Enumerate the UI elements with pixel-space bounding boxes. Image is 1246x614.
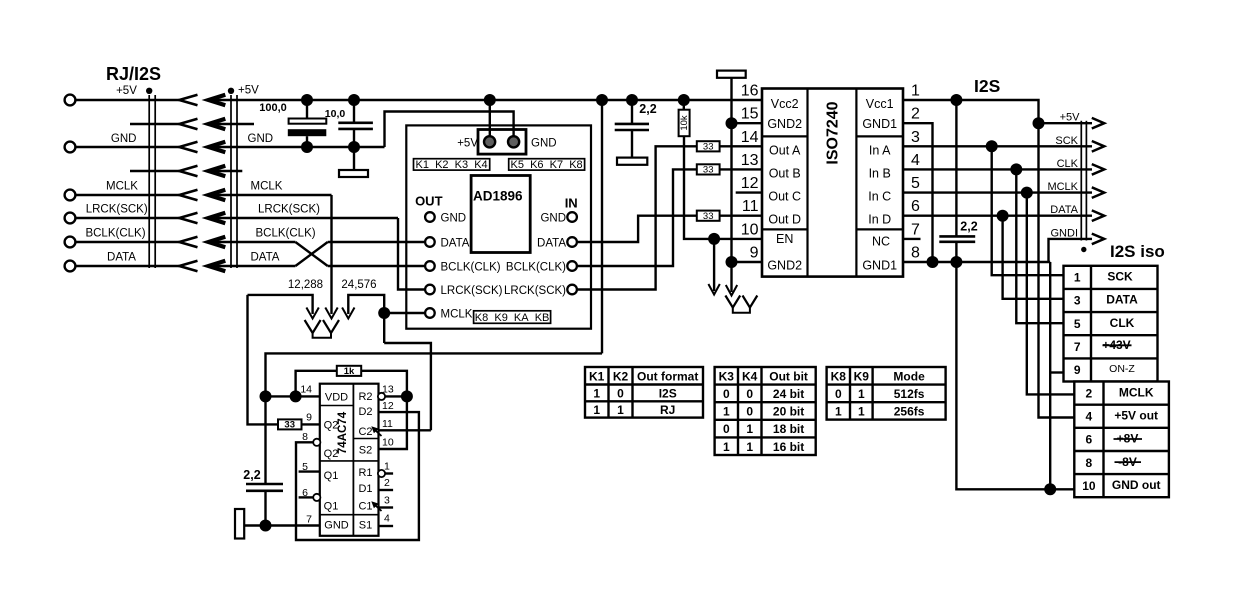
- svg-text:K9: K9: [854, 369, 870, 383]
- wire pin12 stub: [736, 191, 762, 193]
- wire +5V row right: [1039, 122, 1093, 124]
- svg-text:1: 1: [617, 403, 624, 417]
- svg-text:Q2: Q2: [324, 419, 339, 431]
- svg-text:DATA: DATA: [1050, 204, 1078, 216]
- connector table I2S iso odd pins: [1064, 266, 1158, 382]
- wire +5V out to table: [1039, 123, 1075, 417]
- svg-text:+5V out: +5V out: [1114, 409, 1158, 423]
- svg-text:18 bit: 18 bit: [773, 422, 804, 436]
- wire 1k loop right: [361, 371, 407, 397]
- svg-text:Out bit: Out bit: [769, 369, 808, 383]
- svg-text:BCLK(CLK): BCLK(CLK): [256, 228, 316, 240]
- wire Vcc1 pin1 to +5V row: [903, 100, 1039, 123]
- svg-text:In D: In D: [868, 213, 891, 227]
- svg-text:MCLK: MCLK: [1119, 385, 1154, 399]
- svg-text:8: 8: [302, 431, 308, 443]
- svg-text:GND out: GND out: [1112, 478, 1161, 492]
- wire MCLK select drop: [330, 195, 332, 314]
- svg-text:13: 13: [741, 152, 759, 169]
- svg-text:GND: GND: [324, 520, 349, 532]
- pin 3 stub: [379, 506, 394, 508]
- wire LRCK-in to 33: [577, 146, 697, 289]
- wire spare row A stub: [209, 123, 254, 125]
- wire BCLK input row: [209, 241, 296, 243]
- chevrons I2S output: [1092, 118, 1104, 244]
- svg-text:K8 K9 KA KB: K8 K9 KA KB: [475, 312, 550, 324]
- svg-text:AD1896: AD1896: [473, 189, 523, 204]
- wire spare row stub: [209, 170, 243, 172]
- wire 33 to Q2 pin9: [302, 423, 320, 425]
- node junction 100uF bottom: [301, 141, 313, 153]
- chip U3 ISO7240 box: [762, 89, 903, 277]
- svg-text:5: 5: [1074, 317, 1081, 331]
- svg-text:EN: EN: [776, 232, 793, 246]
- resistor R5 33: [697, 211, 720, 221]
- resistor R3 33: [697, 141, 720, 151]
- svg-text:0: 0: [746, 387, 753, 401]
- connector J1 pin circle +5V: [65, 95, 76, 106]
- wire 12,288 elbow: [248, 295, 313, 314]
- cable screen 1: [149, 95, 155, 268]
- svg-text:DATA: DATA: [107, 252, 136, 264]
- svg-text:0: 0: [746, 405, 753, 419]
- svg-text:VDD: VDD: [325, 392, 348, 404]
- svg-text:10: 10: [382, 437, 394, 449]
- wire NC pin7 stub: [903, 238, 921, 240]
- socket V1 right: [725, 296, 740, 308]
- svg-text:K1: K1: [589, 369, 605, 383]
- svg-text:14: 14: [300, 384, 312, 396]
- wire crossover X: [295, 242, 327, 266]
- pin GND pad: [508, 136, 519, 147]
- wire MCLK to table: [1027, 193, 1075, 395]
- cable screen 2: [231, 95, 237, 268]
- pin 5 stub: [299, 470, 320, 472]
- node junction pin13: [401, 390, 413, 402]
- svg-text:GND: GND: [111, 133, 137, 145]
- svg-text:2,2: 2,2: [243, 468, 260, 482]
- pin GND in-side: [567, 212, 577, 222]
- svg-text:10: 10: [741, 221, 759, 238]
- svg-text:Vcc1: Vcc1: [866, 97, 894, 111]
- power header box on AD1896: [478, 130, 526, 155]
- svg-text:16: 16: [741, 83, 759, 100]
- svg-text:GND: GND: [441, 212, 467, 224]
- svg-text:R1: R1: [358, 467, 372, 479]
- wire MCLK to AD1896: [384, 312, 425, 314]
- svg-text:ISO7240: ISO7240: [825, 101, 842, 164]
- wire VDD row 74AC74: [266, 395, 320, 397]
- node GNDI bullet: [1081, 247, 1086, 252]
- svg-text:In B: In B: [869, 166, 891, 180]
- wire LRCK row left: [76, 217, 180, 219]
- svg-text:OUT: OUT: [415, 194, 443, 209]
- wire LRCK input row: [209, 217, 398, 219]
- pin C1 clock mark: [376, 506, 382, 512]
- node junction GND-cap: [260, 520, 272, 532]
- svg-text:Q1: Q1: [324, 470, 339, 482]
- svg-text:DATA: DATA: [251, 252, 280, 264]
- svg-text:Out D: Out D: [768, 213, 801, 227]
- socket V1 left: [305, 320, 321, 333]
- thin chevrons column 1: [179, 95, 197, 271]
- svg-text:1: 1: [746, 440, 753, 454]
- wire +5V drop to AD1896: [489, 100, 491, 138]
- wire +5V rail: [209, 99, 762, 101]
- svg-text:12,288: 12,288: [288, 279, 323, 291]
- svg-text:+5V: +5V: [457, 138, 478, 150]
- svg-text:0: 0: [723, 422, 730, 436]
- svg-text:GND2: GND2: [767, 117, 802, 131]
- wire clock to C2: [384, 343, 431, 430]
- svg-text:3: 3: [384, 495, 390, 507]
- svg-text:+5V: +5V: [238, 85, 259, 97]
- node junction +5V row: [1033, 117, 1045, 129]
- wire GND1 pin8 row: [903, 261, 1050, 263]
- node junction MCLK select: [378, 307, 390, 319]
- pin 1 stub: [385, 472, 393, 474]
- connector J1 pin circle BCLK: [65, 237, 76, 248]
- svg-text:33: 33: [703, 211, 714, 222]
- connector J1 pin circle LRCK: [65, 213, 76, 224]
- svg-text:LRCK(SCK): LRCK(SCK): [504, 285, 566, 297]
- svg-text:1: 1: [593, 403, 600, 417]
- pin GND out-side: [425, 212, 435, 222]
- svg-text:CLK: CLK: [1057, 158, 1079, 170]
- node junction DATA: [997, 210, 1009, 222]
- wire D2 pin12 feedback: [296, 412, 419, 540]
- svg-text:Out C: Out C: [768, 190, 801, 204]
- svg-text:MCLK: MCLK: [106, 181, 138, 193]
- svg-text:DATA: DATA: [537, 237, 566, 249]
- ground plate 74AC74: [235, 509, 244, 539]
- switch block K1 K2 K3 K4: [414, 159, 490, 170]
- pin LRCK(SCK) out-side: [425, 285, 435, 295]
- wire Q2 select drop: [248, 295, 279, 425]
- arrow 24,576 plug: [342, 308, 354, 319]
- pin +5V pad: [484, 136, 495, 147]
- wire spare row left: [130, 170, 179, 172]
- svg-text:4: 4: [1086, 410, 1093, 424]
- switch block K5 K6 K7 K8: [509, 159, 585, 170]
- wire 33 to pin14: [720, 145, 762, 147]
- node junction 2,2 mid: [626, 94, 638, 106]
- svg-text:LRCK(SCK): LRCK(SCK): [441, 285, 503, 297]
- svg-text:Mode: Mode: [893, 369, 925, 383]
- svg-text:Out B: Out B: [769, 166, 801, 180]
- node junction GND out: [1044, 483, 1056, 495]
- svg-text:256fs: 256fs: [894, 405, 925, 419]
- node junction pin15: [726, 117, 738, 129]
- svg-text:6: 6: [1086, 433, 1093, 447]
- svg-text:10: 10: [1082, 479, 1096, 493]
- svg-text:K1 K2 K3 K4: K1 K2 K3 K4: [416, 159, 488, 171]
- svg-text:LRCK(SCK): LRCK(SCK): [86, 204, 148, 216]
- pin DATA in-side: [567, 237, 577, 247]
- connector J1 pin circle DATA: [65, 261, 76, 272]
- svg-text:6: 6: [911, 198, 920, 215]
- wire 33 to pin11: [720, 214, 762, 216]
- svg-text:15: 15: [741, 106, 759, 123]
- arrow 12,288 plug: [306, 308, 318, 319]
- wire pin9 stub: [732, 261, 763, 263]
- wire DATA to table: [1003, 216, 1064, 299]
- svg-text:0: 0: [723, 387, 730, 401]
- connector J1 pin circle MCLK: [65, 190, 76, 201]
- wire 10k to EN: [684, 136, 762, 239]
- node junction CLK: [1010, 163, 1022, 175]
- svg-text:C1: C1: [358, 501, 372, 513]
- wire DATA row pin6: [903, 214, 1092, 216]
- svg-text:16 bit: 16 bit: [773, 440, 804, 454]
- svg-text:GND2: GND2: [767, 259, 802, 273]
- wire GND to GND out: [956, 242, 1074, 489]
- truth table K1 K2 Out format: [585, 367, 703, 418]
- wire +5V feed 74AC74: [266, 353, 603, 484]
- wire BCLK-in to 33: [577, 169, 697, 266]
- svg-text:2: 2: [384, 477, 390, 489]
- svg-text:RJ: RJ: [660, 403, 675, 417]
- arrow MCLK plug: [325, 308, 337, 319]
- ground plate under 10,0: [353, 147, 355, 170]
- svg-text:Q2: Q2: [324, 448, 339, 460]
- wire GND row left: [76, 146, 180, 148]
- connector J1 pin circle GND: [65, 142, 76, 153]
- wire +5V row left: [76, 99, 180, 101]
- wire R2 pin13 row: [379, 395, 407, 397]
- svg-text:GND: GND: [531, 138, 557, 150]
- svg-text:4: 4: [384, 513, 390, 525]
- svg-text:GNDI: GNDI: [1051, 227, 1079, 239]
- svg-text:SCK: SCK: [1107, 270, 1133, 284]
- svg-text:3: 3: [1074, 294, 1081, 308]
- node junction 100uF top: [301, 94, 313, 106]
- svg-text:0: 0: [617, 386, 624, 400]
- node junction cap-pin8: [950, 256, 962, 268]
- svg-text:74AC74: 74AC74: [337, 411, 349, 454]
- arrow EN to connector: [713, 239, 715, 291]
- svg-text:Q1: Q1: [324, 501, 339, 513]
- chip U2 74AC74 box: [320, 384, 379, 536]
- svg-text:100,0: 100,0: [259, 102, 287, 114]
- node junction VDD-1k: [290, 390, 302, 402]
- svg-text:1: 1: [1074, 271, 1081, 285]
- wire LRCK elbow to AD1896: [398, 218, 425, 290]
- wire pin13 to S2 pin10: [379, 396, 407, 449]
- socket V2 right: [743, 296, 758, 308]
- svg-text:1: 1: [911, 83, 920, 100]
- svg-text:BCLK(CLK): BCLK(CLK): [506, 261, 566, 273]
- node +5V bullet right: [228, 88, 234, 94]
- svg-text:1: 1: [858, 387, 865, 401]
- wire CLK row pin4: [903, 168, 1092, 170]
- svg-text:I2S: I2S: [659, 386, 677, 400]
- wire DATA-in to 33: [577, 216, 697, 242]
- resistor R1 1k: [337, 366, 361, 376]
- pin 6 inversion circle: [313, 494, 320, 501]
- svg-text:C2: C2: [358, 426, 372, 438]
- svg-text:Out format: Out format: [637, 369, 698, 383]
- node junction 10uF bottom: [348, 141, 360, 153]
- wire CLK to table: [1016, 169, 1063, 323]
- node junction SCK: [986, 140, 998, 152]
- svg-text:R2: R2: [358, 391, 372, 403]
- svg-text:IN: IN: [565, 196, 578, 211]
- capacitor C3 2,2: [246, 484, 283, 491]
- connector table I2S iso even pins: [1074, 382, 1169, 498]
- svg-text:In A: In A: [869, 143, 891, 157]
- svg-text:1: 1: [723, 405, 730, 419]
- capacitor C1 100,0 electrolytic: [306, 100, 308, 119]
- wire MCLK input row: [209, 194, 332, 196]
- svg-text:I2S iso: I2S iso: [1110, 242, 1165, 261]
- wire SCK to table: [992, 146, 1064, 275]
- wire +5V drop right of AD1896: [601, 100, 603, 353]
- truth table K8 K9 Mode: [827, 367, 946, 420]
- svg-text:I2S: I2S: [974, 76, 1000, 96]
- pin 1 inversion circle: [378, 470, 385, 477]
- svg-text:512fs: 512fs: [894, 387, 925, 401]
- svg-text:9: 9: [1074, 363, 1081, 377]
- svg-text:MCLK: MCLK: [1047, 181, 1078, 193]
- svg-text:2,2: 2,2: [639, 102, 656, 116]
- wire 1k loop left: [296, 371, 337, 397]
- pin MCLK out-side: [425, 308, 435, 318]
- svg-text:K3: K3: [719, 369, 735, 383]
- svg-text:20 bit: 20 bit: [773, 405, 804, 419]
- svg-text:GND1: GND1: [862, 117, 897, 131]
- svg-text:1k: 1k: [344, 366, 355, 377]
- pin 4 stub: [379, 525, 394, 527]
- svg-text:GND: GND: [540, 212, 566, 224]
- svg-text:10k: 10k: [679, 115, 690, 131]
- wire DATA input row: [209, 265, 296, 267]
- svg-text:K2: K2: [613, 369, 629, 383]
- wire GND row 74AC74: [244, 524, 320, 526]
- capacitor C4 2,2: [631, 100, 633, 123]
- svg-text:4: 4: [911, 152, 920, 169]
- truth table K3 K4 Out bit: [715, 367, 816, 455]
- node junction EN arrow: [708, 233, 720, 245]
- node junction +5V AD1896: [484, 94, 496, 106]
- wire GNDI row: [1049, 239, 1093, 262]
- wire SCK row pin3: [903, 145, 1092, 147]
- svg-text:In C: In C: [868, 190, 891, 204]
- wire BCLK row left: [76, 241, 180, 243]
- capacitor C5 2,2 plates: [939, 236, 975, 241]
- pin BCLK(CLK) out-side: [425, 261, 435, 271]
- svg-text:+5V: +5V: [1060, 112, 1081, 124]
- node junction pin1: [950, 94, 962, 106]
- svg-text:1: 1: [593, 386, 600, 400]
- node +5V bullet left: [146, 88, 152, 94]
- svg-text:1: 1: [858, 405, 865, 419]
- svg-text:5: 5: [911, 175, 920, 192]
- svg-text:MCLK: MCLK: [441, 308, 473, 320]
- svg-text:24,576: 24,576: [341, 279, 376, 291]
- svg-text:S2: S2: [359, 445, 372, 457]
- svg-text:CLK: CLK: [1110, 316, 1135, 330]
- svg-text:12: 12: [741, 175, 759, 192]
- node junction 10k top: [678, 94, 690, 106]
- pin C2 clock mark: [376, 431, 382, 437]
- wire ON-Z drop: [1049, 262, 1051, 489]
- node junction pin2-pin8: [927, 256, 939, 268]
- svg-text:LRCK(SCK): LRCK(SCK): [258, 204, 320, 216]
- socket cup left: [313, 333, 331, 338]
- svg-text:2: 2: [911, 106, 920, 123]
- svg-text:1: 1: [835, 405, 842, 419]
- svg-text:9: 9: [306, 412, 312, 424]
- node junction +5V drop: [596, 94, 608, 106]
- module AD1896 outer box: [406, 125, 591, 328]
- wire pin15 stub: [732, 122, 763, 124]
- resistor R4 33: [697, 164, 720, 174]
- ground plate under 2,2: [631, 130, 633, 158]
- svg-text:9: 9: [750, 245, 759, 262]
- svg-text:K4: K4: [742, 369, 758, 383]
- svg-text:GND1: GND1: [862, 259, 897, 273]
- pin 2 stub: [379, 489, 394, 491]
- svg-text:RJ/I2S: RJ/I2S: [106, 64, 161, 84]
- svg-text:8: 8: [1086, 456, 1093, 470]
- node junction pin9: [726, 256, 738, 268]
- svg-text:Vcc2: Vcc2: [771, 97, 799, 111]
- svg-text:11: 11: [742, 198, 759, 215]
- socket V2 left: [323, 320, 339, 333]
- svg-text:8: 8: [911, 245, 920, 262]
- svg-text:3: 3: [911, 129, 920, 146]
- svg-text:2,2: 2,2: [960, 220, 977, 234]
- svg-text:24 bit: 24 bit: [773, 387, 804, 401]
- svg-text:1: 1: [746, 422, 753, 436]
- svg-text:33: 33: [703, 141, 714, 152]
- svg-text:14: 14: [741, 129, 759, 146]
- chip U1 AD1896: [471, 176, 530, 253]
- svg-text:7: 7: [306, 514, 312, 526]
- svg-text:+5V: +5V: [116, 85, 137, 97]
- wire MCLK row left: [76, 194, 180, 196]
- svg-text:12: 12: [382, 400, 394, 412]
- socket cup right: [733, 308, 750, 313]
- svg-text:D1: D1: [358, 483, 372, 495]
- wire GND elbow to AD1896: [385, 112, 514, 148]
- svg-text:DATA: DATA: [1106, 293, 1138, 307]
- capacitor C5 2,2 top lead: [955, 100, 957, 236]
- resistor R2 33: [278, 419, 302, 429]
- wire DATA row left: [76, 265, 180, 267]
- capacitor C2 10,0: [353, 100, 355, 122]
- svg-text:ON-Z: ON-Z: [1109, 363, 1135, 375]
- wire MCLK row pin5: [903, 191, 1092, 193]
- node junction 10uF top: [348, 94, 360, 106]
- resistor R6 10k: [683, 100, 685, 110]
- wire GND2 vertical: [730, 123, 732, 262]
- svg-text:Out A: Out A: [769, 143, 801, 157]
- svg-text:11: 11: [382, 418, 393, 430]
- svg-text:33: 33: [284, 420, 295, 431]
- svg-text:DATA: DATA: [441, 237, 470, 249]
- svg-text:S1: S1: [359, 520, 372, 532]
- svg-text:2: 2: [1086, 386, 1093, 400]
- node junction VDD-cap: [260, 390, 272, 402]
- pin 13 inversion circle: [378, 393, 385, 400]
- svg-text:NC: NC: [872, 235, 890, 249]
- pin 8 inversion circle: [313, 439, 320, 446]
- svg-text:BCLK(CLK): BCLK(CLK): [441, 261, 501, 273]
- svg-text:7: 7: [1074, 340, 1081, 354]
- arrow GND2 to connector: [730, 262, 732, 292]
